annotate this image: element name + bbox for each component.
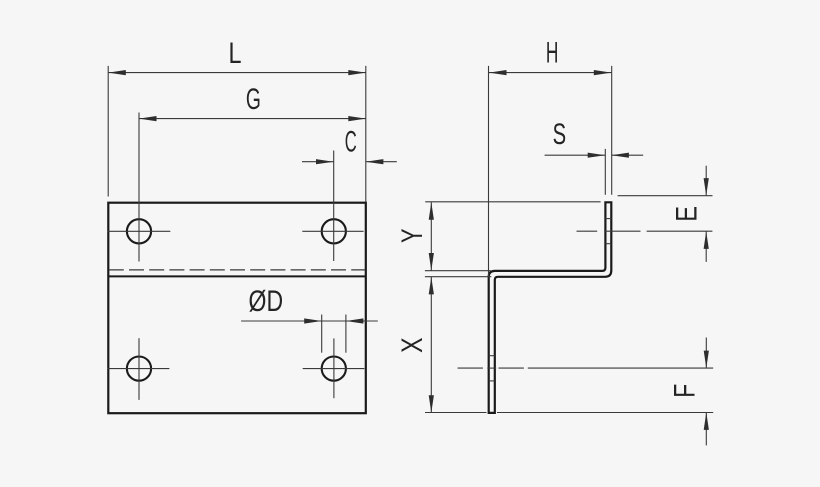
svg-text:C: C	[345, 125, 357, 158]
crosshair BL hole	[108, 368, 170, 370]
arrow X top	[429, 277, 434, 295]
hole bottom-left	[127, 357, 151, 381]
hole top-right	[322, 219, 346, 243]
extension line top edge side view	[425, 201, 600, 203]
dimension line S	[545, 154, 606, 156]
dimension line H	[489, 72, 611, 74]
arrow S left	[588, 153, 606, 158]
arrow E bottom	[704, 231, 709, 249]
arrow E top	[704, 178, 709, 196]
svg-text:L: L	[229, 37, 242, 70]
plate front view outline	[108, 203, 366, 414]
dimension line C	[302, 161, 334, 163]
svg-text:F: F	[668, 384, 701, 398]
svg-text:X: X	[396, 337, 429, 353]
hole top-left	[127, 219, 151, 243]
arrow D left	[304, 318, 322, 323]
extension line bottom edge / F bottom	[425, 412, 487, 414]
arrow S right	[611, 153, 629, 158]
dimension line X	[430, 277, 432, 413]
extension line L/G/C right	[365, 66, 367, 202]
arrow H right	[594, 70, 612, 75]
arrow C right	[366, 159, 384, 164]
dimension line F	[705, 338, 707, 368]
dimension line Y	[430, 202, 432, 270]
extension line web bottom	[425, 276, 491, 278]
arrow F bottom	[704, 412, 709, 430]
arrow L right	[348, 70, 366, 75]
extension line H right	[611, 66, 613, 195]
hole bottom-right	[322, 357, 346, 381]
extension line E top	[618, 195, 713, 197]
crosshair BR hole	[303, 368, 365, 370]
svg-text:E: E	[671, 206, 704, 222]
bend tangent solid line	[108, 275, 366, 277]
arrow X bottom	[429, 395, 434, 413]
arrow Y bottom	[429, 253, 434, 271]
dimension line G	[139, 118, 366, 120]
arrow C left	[316, 159, 334, 164]
hole edge ticks lower flange	[489, 355, 495, 357]
arrow G left	[139, 116, 157, 121]
dimension line E	[705, 166, 707, 196]
svg-text:ØD: ØD	[249, 285, 284, 318]
bend dashed line	[109, 269, 366, 271]
arrow G right	[348, 116, 366, 121]
svg-text:G: G	[246, 83, 261, 116]
svg-text:S: S	[553, 118, 567, 151]
center line lower hole side view	[458, 367, 483, 369]
arrow F top	[704, 351, 709, 369]
crosshair TR hole	[302, 230, 363, 232]
extension line S left	[604, 149, 606, 195]
arrow D right	[346, 318, 364, 323]
Z profile side view	[489, 202, 612, 413]
arrow L left	[108, 70, 126, 75]
center line upper hole side view	[577, 230, 598, 232]
extension line L left	[107, 66, 109, 197]
extension line web top	[425, 270, 491, 272]
extension line E bottom	[647, 230, 713, 232]
dimension line diameter D	[241, 320, 378, 322]
hole edge ticks upper flange	[605, 218, 611, 220]
svg-text:H: H	[546, 36, 559, 69]
svg-text:Y: Y	[396, 228, 429, 243]
extension line H left	[488, 66, 490, 276]
crosshair TL hole	[108, 230, 171, 232]
arrow Y top	[429, 202, 434, 220]
extension lines diameter D	[321, 315, 323, 353]
extension line F top	[528, 367, 713, 369]
dimension line L	[108, 72, 366, 74]
arrow H left	[489, 70, 507, 75]
